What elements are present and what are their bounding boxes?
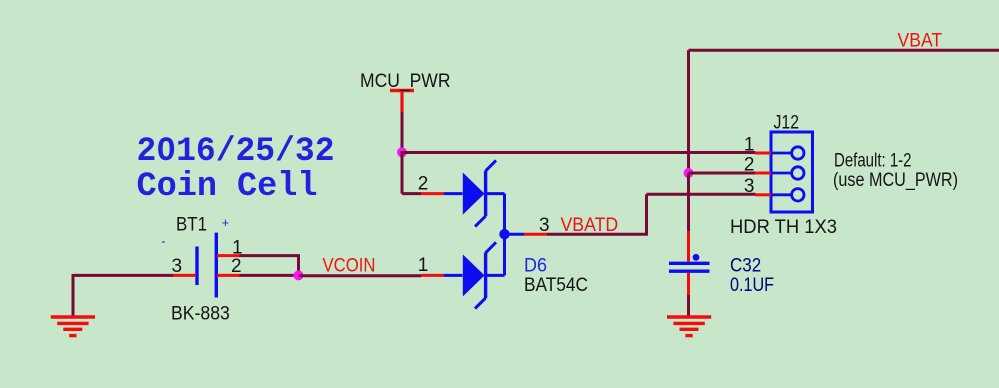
wire cathode bus upper [503,194,506,235]
node junction MCU_PWR (magenta) [397,147,407,157]
svg-text:J12: J12 [774,112,800,133]
node junction VCOIN (magenta) [294,270,304,280]
svg-text:Coin Cell: Coin Cell [137,168,318,206]
svg-text:2: 2 [744,155,755,176]
title text "2016/25/32 Coin Cell" [137,133,335,206]
pin 1 stub of J12 (red) [755,152,771,155]
svg-text:Default: 1-2: Default: 1-2 [834,151,912,172]
ground (right) [667,317,711,336]
svg-text:1: 1 [744,135,755,156]
wire cathode bus lower [503,234,506,275]
svg-text:(use MCU_PWR): (use MCU_PWR) [833,170,958,191]
wire BT1 pin1 over to junction [240,254,299,275]
capacitor C32 [669,254,710,271]
ground (left) [51,317,95,336]
svg-text:HDR TH 1X3: HDR TH 1X3 [730,217,837,238]
svg-text:2: 2 [418,174,429,195]
battery BT1 [161,216,229,298]
svg-text:MCU_PWR: MCU_PWR [360,71,451,92]
svg-text:C32: C32 [730,256,761,277]
wire junction down to D6 pin 2 [402,151,421,194]
title zero-dot mask [163,146,169,152]
svg-text:BT1: BT1 [176,214,207,235]
diode D6 upper (Schottky) [444,160,505,226]
svg-text:1: 1 [418,255,429,276]
diode D6 lower (Schottky) [444,242,505,308]
wire BT1 pin2 to junction [240,274,299,277]
wire VBATD to J12 pin 3 [547,194,756,234]
wire junction down to C32 [687,173,690,231]
svg-text:VBAT: VBAT [898,31,943,52]
svg-text:2: 2 [231,256,242,277]
pin 2 stub of BT1 (red) [217,274,240,277]
wire junction to J12 pin 1 [402,151,756,154]
svg-text:3: 3 [172,256,183,277]
node cathode junction (blue dot) [499,229,509,239]
svg-text:D6: D6 [524,255,547,276]
pin 2 stub of J12 (red) [755,172,771,175]
pin 3 stub of J12 (red) [755,193,771,196]
svg-text:BAT54C: BAT54C [524,275,588,296]
svg-text:VCOIN: VCOIN [323,255,376,276]
pin 3 of D6 (blue then red stub) [505,233,525,236]
node junction VBAT/pin2 (magenta) [684,168,694,178]
connector J12 [771,132,813,212]
wire junction to J12 pin 2 [689,172,756,175]
svg-text:3: 3 [744,176,755,197]
pin stub C32 bottom (red) [687,273,690,295]
svg-text:0.1UF: 0.1UF [730,275,774,296]
pin 3 stub of BT1 (red) [173,274,196,277]
power symbol MCU_PWR [360,71,451,113]
wire MCU_PWR drop to junction [401,112,404,153]
pin 1 stub of D6 (red) [421,274,444,277]
wire VCOIN run to D6 pin 1 [299,274,422,277]
svg-text:2016/25/32: 2016/25/32 [137,133,335,171]
pin stub C32 top (red) [687,231,690,262]
svg-text:+: + [222,216,229,230]
pin 2 stub of D6 (red) [421,192,444,195]
pin 1 stub of BT1 (red) [217,254,240,257]
wire VBAT top rail [689,50,999,173]
svg-text:-: - [161,234,165,249]
wire BT1 pin3 to ground [73,274,173,316]
svg-text:BK-883: BK-883 [171,304,230,325]
wire C32 to ground [687,295,690,316]
